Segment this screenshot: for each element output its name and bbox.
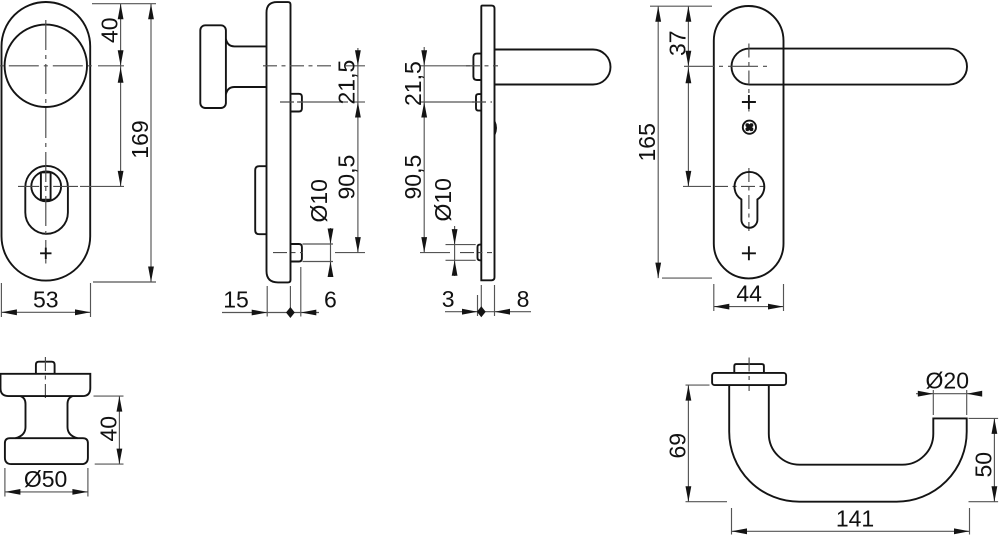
lever handle U-shape [729,385,967,502]
svg-text:40: 40 [95,416,121,442]
dimension 50 (handle height) [970,418,997,501]
cylinder oval cutout [25,166,68,234]
plate (side, 15mm thick) [267,2,291,282]
euro cylinder circle [31,172,61,202]
dimension O50 (knob diameter) [5,466,88,495]
svg-text:15: 15 [223,287,249,313]
dimension 15 (plate thickness) [222,287,290,316]
50 top extension line [969,417,999,419]
dimension O10 (boss diameter) [430,178,457,276]
15/6 right extension line [300,267,302,317]
O50 right extension line [87,468,89,497]
knob neck right edge with flares [68,396,78,438]
spindle stub [734,364,764,373]
dimension 6 (boss projection) [286,287,337,319]
torx screw head [743,121,756,134]
handle axis center line through boss [466,65,498,67]
cylinder axis extension [683,185,711,187]
svg-text:Ø20: Ø20 [926,368,969,394]
VIEW4: front view of lever handle plate (44x165) [634,6,967,311]
plate bar edge-on [1,374,91,396]
15/6 left extension line [266,286,268,317]
knob head (O50) [5,438,88,464]
plate outline (53x169 stadium) [2,2,91,281]
svg-text:69: 69 [664,433,690,459]
3/8 right extension line [494,285,496,316]
dimension 90,5 (screw to screw) [400,102,427,253]
vertical center line [748,358,750,392]
VIEW2: side view of knob plate [200,2,365,318]
svg-text:165: 165 [634,123,660,161]
O10 top extension line [446,244,476,246]
svg-text:Ø10: Ø10 [430,178,456,221]
dimension 21,5 (axis to screw) [334,48,361,105]
dimension 40 (plate top to knob axis) [97,4,124,66]
svg-text:90,5: 90,5 [334,155,360,200]
svg-text:169: 169 [127,120,153,158]
dimension 21,5 (axis to screw) [400,47,427,106]
lower screw axis extension [335,252,365,254]
knob neck bottom edge with fillet [226,87,267,94]
svg-text:40: 40 [97,17,123,43]
extension of knob axis line to dimension [98,65,124,67]
lower screw axis extension [420,252,450,254]
44 right extension line [783,284,785,311]
vertical center line upper [748,44,750,113]
svg-text:6: 6 [324,287,337,313]
O10 bottom extension line [446,259,476,261]
dimension 169 (plate height) [127,4,154,282]
dimension handle axis to cylinder axis (unlabeled) [686,66,692,186]
spindle boss (left of plate) [473,54,481,80]
knob head (side) [200,25,226,108]
lower screw cross [742,246,756,260]
keyway slot [41,172,51,199]
O50 left extension line [4,468,6,497]
lower screw axis center line [460,252,492,254]
svg-text:53: 53 [33,286,59,312]
50 bottom extension line [969,501,999,503]
handle axis center line [684,65,770,67]
knob neck left edge with flares [16,396,26,438]
extension of cylinder axis line to dimension [80,185,124,187]
upper screw axis extension [420,101,474,103]
upper screw boss (left of plate) [476,94,481,111]
upper screw axis extension [297,101,348,103]
latch bump on right edge [495,121,497,135]
svg-text:90,5: 90,5 [400,155,426,200]
O10 top extension line [303,243,334,245]
bottom extension line [93,281,156,283]
dimension 3 (boss projection) [442,286,482,315]
dimension 44 (plate width) [714,281,784,310]
top extension line [650,5,712,7]
69 top extension line [686,384,710,386]
knob circle (O50) [5,25,87,107]
VIEW5: knob with plate edge-on (bottom left) [1,357,124,497]
dimension 90,5 (screw to screw) [334,102,361,253]
40 bottom extension line [95,463,124,465]
lower fixing boss (right of plate) [291,244,302,262]
O20 right extension line [966,390,968,415]
knob neck top edge with fillet [226,39,267,46]
vertical center line through keyhole [748,168,750,231]
dimension 8 (plate thickness) [477,286,531,317]
dimension O10 (boss diameter) [306,179,333,277]
upper screw axis tick at dimension [352,101,365,103]
svg-text:Ø10: Ø10 [306,179,332,222]
upper screw axis center line [472,101,492,103]
svg-text:Ø50: Ø50 [24,466,67,492]
141 left extension line [731,508,733,535]
svg-text:21,5: 21,5 [400,61,426,106]
15/6 middle extension line [289,286,291,317]
vertical center line [44,357,46,401]
euro profile keyhole [734,172,764,228]
upper fixing boss (right of plate) [291,94,302,112]
svg-text:141: 141 [836,506,874,532]
plate (side, 8mm) [481,6,494,281]
cylinder cover bump (left of plate) [255,166,266,234]
dimension 37 (plate top to handle axis) [664,6,691,66]
upper screw axis line [280,101,303,103]
svg-text:44: 44 [736,281,762,307]
svg-text:21,5: 21,5 [334,60,360,105]
horizontal center line through knob axis [0,65,96,67]
VIEW1: front view of knob security plate [0,2,156,317]
dimension 141 (handle length) [732,506,970,535]
bearing collar [712,373,786,385]
dimension 165 (plate height) [634,6,661,278]
handle axis line [420,65,470,67]
dimension 69 (grip depth) [664,385,691,502]
cylinder axis center line [714,185,766,187]
dimension 40 (knob projection) [95,396,122,464]
O10 bottom extension line [303,261,334,263]
lever handle (side) [495,50,611,85]
spindle stub [36,362,55,374]
3/8 left extension line [477,295,479,316]
40 top extension line [94,395,124,397]
knob axis extension tick [346,65,365,67]
upper screw cross [742,95,756,109]
svg-text:50: 50 [970,452,996,478]
svg-text:8: 8 [517,286,530,312]
O20 left extension line [932,390,934,415]
69 bottom extension line [686,501,728,503]
141 right extension line [969,508,971,535]
lower screw boss (left of plate) [478,245,482,261]
dimension knob axis to cylinder axis (unlabeled) [118,66,124,187]
dimension O20 (grip diameter) [916,368,982,397]
knob axis center line [263,65,331,67]
lower screw axis line [273,252,303,254]
dimension 53 (plate width) [1,283,90,317]
lower screw position cross [40,248,51,259]
horizontal center line through cylinder [18,185,78,187]
top extension line [92,3,156,5]
vertical center line [45,20,47,264]
svg-text:37: 37 [664,30,690,56]
VIEW3: side view of lever handle short plate [400,6,611,318]
3/8 middle extension line [480,285,482,316]
plate outline (44x165 stadium) [714,6,784,278]
svg-text:3: 3 [442,286,455,312]
bottom extension line [662,277,712,279]
lever handle (front) [732,49,968,85]
44 left extension line [713,284,715,311]
VIEW6: lever handle alone (bottom right) [664,358,998,535]
